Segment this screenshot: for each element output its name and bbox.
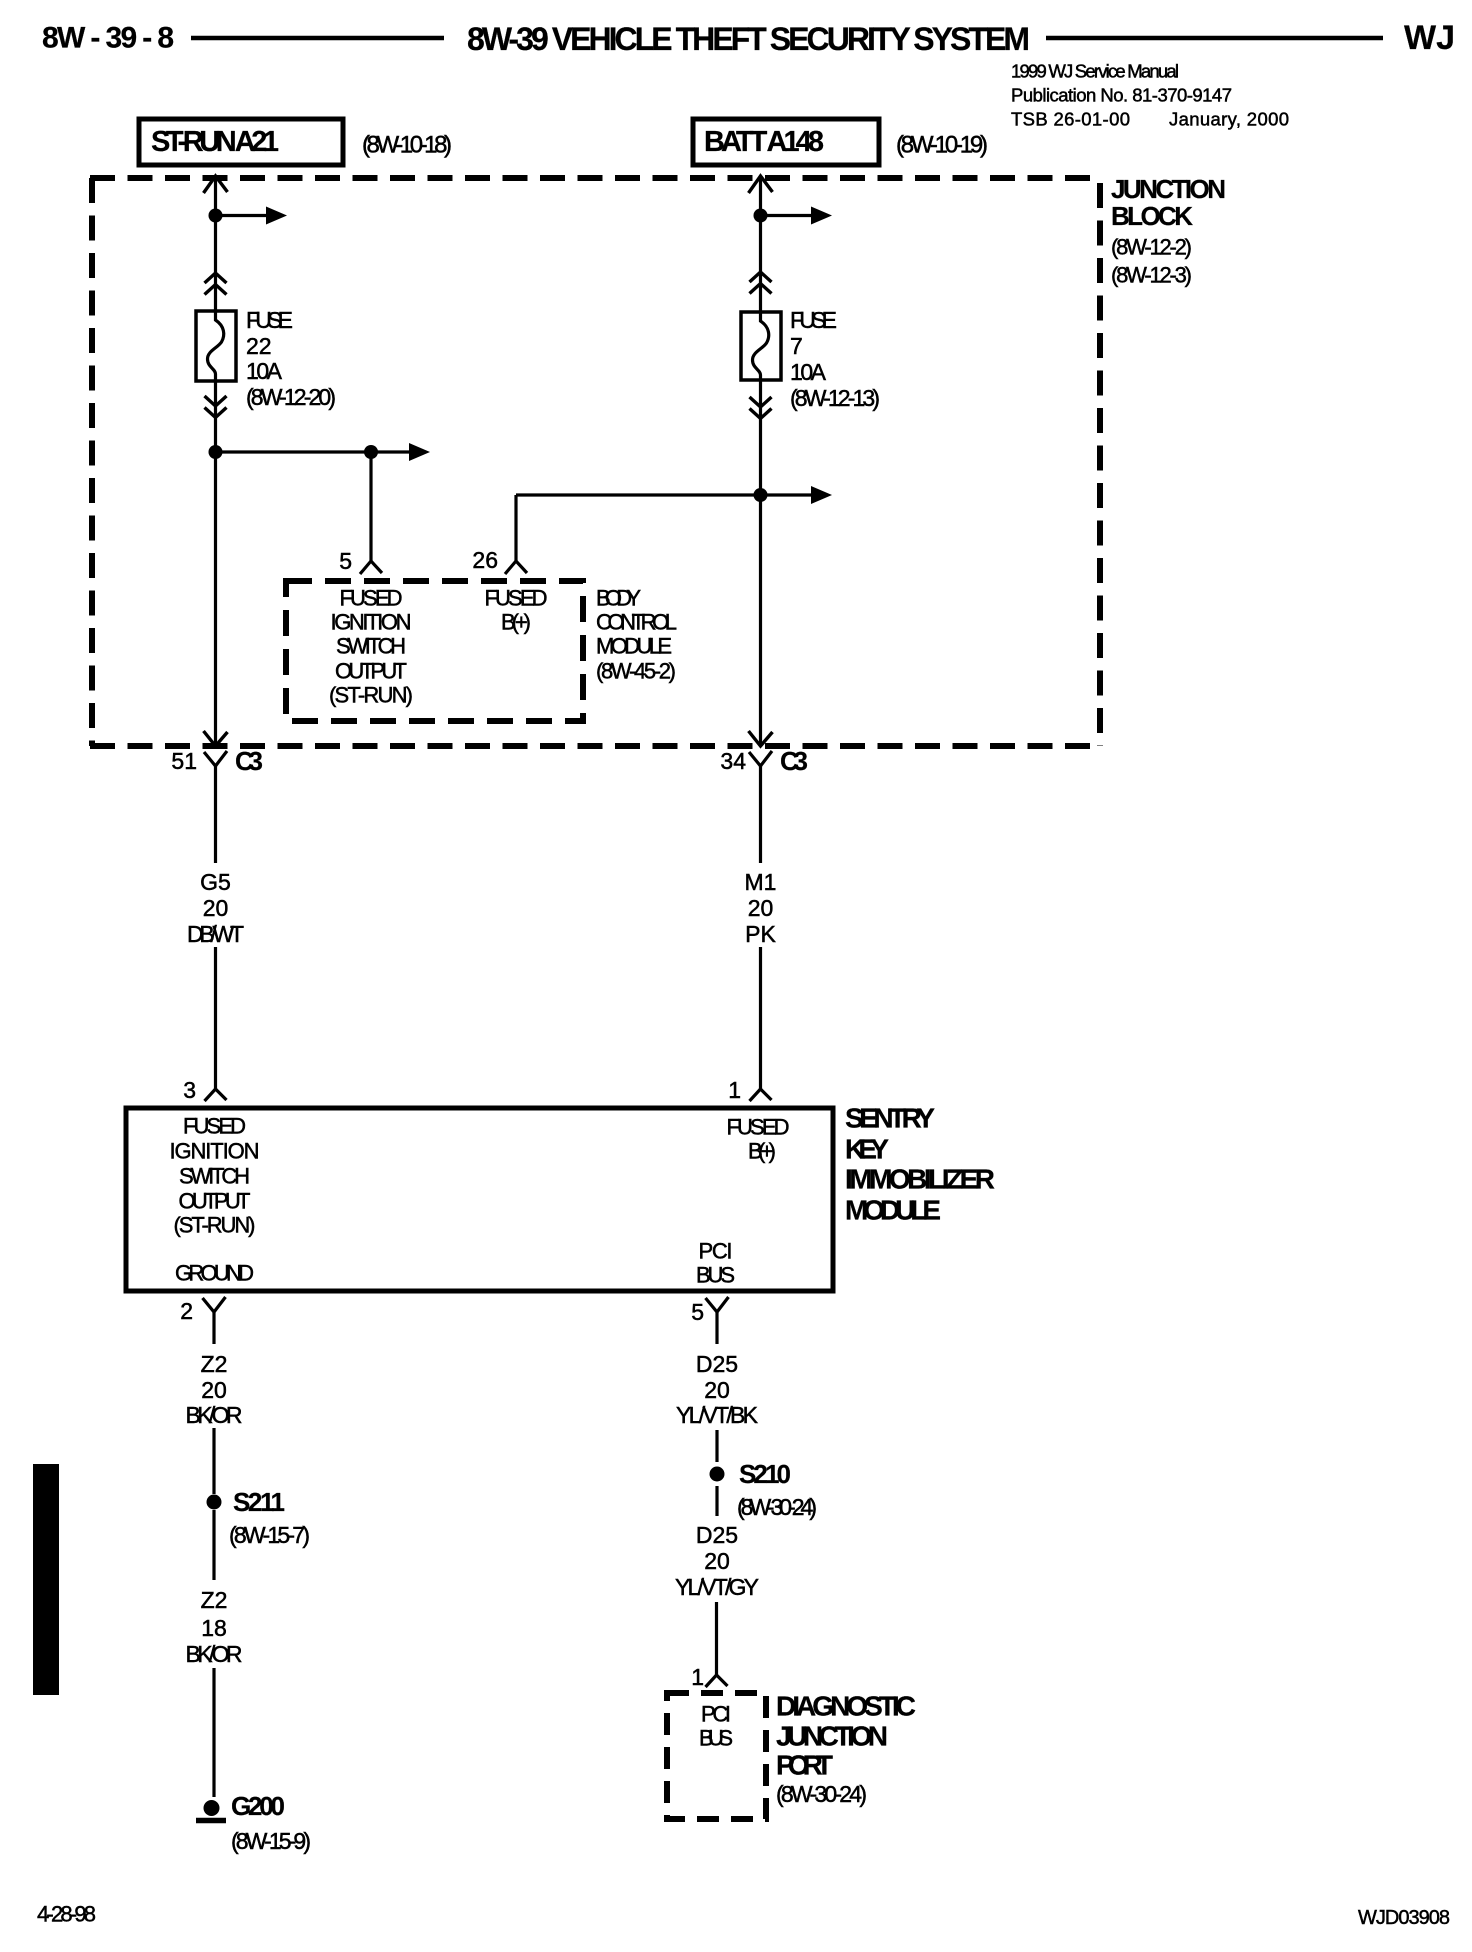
connector chevrons above fuse 7 — [750, 272, 772, 282]
junction node on batt feed upper — [754, 209, 768, 223]
svg-text:CONTROL: CONTROL — [596, 610, 677, 635]
page margin black bar — [33, 1464, 59, 1695]
svg-text:(ST-RUN): (ST-RUN) — [329, 683, 413, 708]
svg-text:M1: M1 — [745, 869, 777, 895]
junction node below fuse 22 — [209, 445, 223, 459]
svg-text:BK/OR: BK/OR — [186, 1641, 243, 1667]
svg-text:Publication No. 81-370-9147: Publication No. 81-370-9147 — [1011, 85, 1232, 106]
connector pin 5 socket below SKIM — [706, 1297, 729, 1312]
svg-text:PORT: PORT — [776, 1750, 833, 1781]
svg-text:OUTPUT: OUTPUT — [179, 1189, 251, 1214]
svg-text:C3: C3 — [780, 746, 808, 776]
svg-text:7: 7 — [790, 333, 803, 359]
svg-text:BODY: BODY — [596, 586, 641, 611]
wire BCM pin 26 to batt feed with arrow — [514, 495, 517, 561]
wire Z2 segment above S211 — [212, 1428, 215, 1494]
svg-text:5: 5 — [339, 548, 352, 574]
connector pin 1 into diagnostic junction port — [706, 1675, 728, 1687]
splice S210 — [710, 1467, 725, 1482]
svg-text:1: 1 — [728, 1077, 741, 1103]
svg-text:1999 WJ Service Manual: 1999 WJ Service Manual — [1011, 61, 1179, 82]
svg-text:(8W-45-2): (8W-45-2) — [596, 659, 676, 684]
connector C3 pin 34 socket — [749, 751, 772, 766]
wire D25 segment above S210 — [715, 1430, 718, 1462]
svg-text:TSB 26-01-00: TSB 26-01-00 — [1011, 109, 1130, 130]
connector C3 pin 34 arrow down — [749, 731, 773, 746]
svg-text:BUS: BUS — [699, 1726, 733, 1751]
junction block dashed outline — [90, 178, 1100, 746]
svg-text:D25: D25 — [696, 1351, 738, 1377]
svg-text:YL/VT/BK: YL/VT/BK — [676, 1402, 759, 1428]
svg-text:34: 34 — [720, 748, 746, 774]
svg-text:(8W-10-18): (8W-10-18) — [362, 132, 452, 159]
header rule left — [191, 36, 444, 41]
diagnostic junction port dashed box — [667, 1693, 766, 1819]
wire st-run feed vertical upper — [214, 177, 217, 311]
fuse 7 10A — [741, 312, 781, 380]
wire batt feed vertical upper — [759, 177, 762, 312]
connector pin 1 into SKIM — [750, 1089, 772, 1101]
svg-text:S211: S211 — [233, 1487, 285, 1517]
wire M1 upper segment — [759, 766, 762, 863]
svg-text:ST-RUN A21: ST-RUN A21 — [151, 126, 279, 158]
svg-text:(8W-15-9): (8W-15-9) — [231, 1828, 311, 1854]
svg-text:18: 18 — [201, 1615, 227, 1641]
svg-text:1: 1 — [691, 1664, 704, 1690]
svg-text:GROUND: GROUND — [175, 1261, 254, 1286]
svg-text:B(+): B(+) — [501, 610, 531, 635]
svg-text:SWITCH: SWITCH — [179, 1164, 250, 1189]
svg-text:FUSED: FUSED — [183, 1114, 246, 1139]
connector chevrons below fuse 7 — [750, 397, 772, 407]
header rule right — [1046, 36, 1383, 41]
connector pin 3 into SKIM — [205, 1089, 227, 1101]
svg-text:MODULE: MODULE — [845, 1195, 941, 1226]
svg-text:(8W-10-19): (8W-10-19) — [896, 132, 988, 159]
node ST-RUN A21 box — [139, 119, 343, 165]
wire Z2 segment below S211 — [212, 1510, 215, 1580]
svg-text:8W - 39 - 8: 8W - 39 - 8 — [42, 22, 174, 55]
wire Z2 to ground — [212, 1668, 215, 1797]
svg-text:DIAGNOSTIC: DIAGNOSTIC — [776, 1691, 916, 1722]
connector chevrons below fuse 22 — [205, 396, 227, 406]
svg-text:BATT A148: BATT A148 — [704, 126, 824, 158]
svg-text:5: 5 — [691, 1299, 704, 1325]
sentry key immobilizer module box — [126, 1108, 833, 1291]
svg-text:10A: 10A — [790, 359, 827, 385]
svg-text:(8W-12-2): (8W-12-2) — [1111, 235, 1192, 260]
svg-text:IGNITION: IGNITION — [170, 1139, 260, 1164]
svg-text:20: 20 — [201, 1377, 227, 1403]
svg-text:4-28-98: 4-28-98 — [37, 1902, 96, 1927]
svg-text:PCI: PCI — [699, 1239, 733, 1264]
svg-text:IMMOBILIZER: IMMOBILIZER — [845, 1164, 995, 1195]
svg-text:51: 51 — [171, 748, 197, 774]
svg-text:JUNCTION: JUNCTION — [776, 1721, 888, 1752]
svg-text:JUNCTION: JUNCTION — [1111, 174, 1226, 204]
svg-text:(ST-RUN): (ST-RUN) — [174, 1213, 256, 1238]
svg-text:G200: G200 — [231, 1791, 285, 1821]
svg-text:OUTPUT: OUTPUT — [335, 659, 407, 684]
svg-text:SENTRY: SENTRY — [845, 1103, 935, 1134]
svg-text:8W-39 VEHICLE THEFT SECURITY S: 8W-39 VEHICLE THEFT SECURITY SYSTEM — [467, 21, 1030, 57]
svg-text:(8W-12-3): (8W-12-3) — [1111, 263, 1192, 288]
wire branch arrow right upper left — [216, 214, 267, 217]
svg-text:FUSE: FUSE — [246, 307, 293, 333]
svg-text:FUSED: FUSED — [340, 586, 403, 611]
svg-text:FUSE: FUSE — [790, 307, 837, 333]
svg-text:FUSED: FUSED — [485, 586, 548, 611]
svg-text:26: 26 — [472, 547, 498, 573]
arrow up to BATT A148 — [749, 176, 773, 193]
wire D25 segment below S210 — [715, 1486, 718, 1516]
svg-text:2: 2 — [180, 1298, 193, 1324]
svg-text:BLOCK: BLOCK — [1111, 201, 1193, 231]
svg-text:YL/VT/GY: YL/VT/GY — [675, 1574, 759, 1600]
svg-text:G5: G5 — [200, 869, 231, 895]
wire M1 lower segment — [759, 947, 762, 1089]
connector pin 5 into BCM — [360, 561, 382, 574]
svg-text:WJ: WJ — [1404, 19, 1455, 57]
wire below fuse 7 — [759, 380, 762, 744]
svg-text:WJD03908: WJD03908 — [1358, 1907, 1450, 1929]
svg-text:B(+): B(+) — [748, 1139, 776, 1164]
wire below fuse 22 — [214, 381, 217, 744]
svg-text:BK/OR: BK/OR — [186, 1402, 243, 1428]
connector pin 2 socket below SKIM — [203, 1297, 226, 1312]
wire D25 to diagnostic junction port — [715, 1602, 718, 1675]
svg-text:PCI: PCI — [701, 1702, 731, 1727]
svg-text:SWITCH: SWITCH — [336, 634, 406, 659]
body control module dashed box — [286, 581, 583, 721]
svg-text:Z2: Z2 — [201, 1587, 228, 1613]
svg-text:(8W-30-24): (8W-30-24) — [737, 1494, 817, 1520]
svg-text:(8W-12-20): (8W-12-20) — [246, 384, 336, 410]
svg-text:22: 22 — [246, 333, 272, 359]
svg-text:20: 20 — [748, 895, 774, 921]
svg-text:IGNITION: IGNITION — [331, 610, 412, 635]
junction node on batt feed — [754, 488, 768, 502]
wire G5 upper segment — [214, 766, 217, 863]
svg-text:3: 3 — [183, 1077, 196, 1103]
svg-text:January, 2000: January, 2000 — [1169, 109, 1289, 130]
svg-text:Z2: Z2 — [201, 1351, 228, 1377]
arrow up to ST-RUN A21 — [204, 176, 228, 193]
svg-text:PK: PK — [745, 921, 776, 947]
svg-text:(8W-30-24): (8W-30-24) — [776, 1781, 867, 1807]
wire branch arrow right upper right — [761, 214, 813, 217]
svg-text:(8W-12-13): (8W-12-13) — [790, 385, 880, 411]
svg-text:KEY: KEY — [845, 1134, 889, 1165]
svg-text:FUSED: FUSED — [727, 1115, 790, 1140]
svg-text:20: 20 — [704, 1548, 730, 1574]
connector C3 pin 51 arrow down — [204, 731, 228, 746]
svg-text:MODULE: MODULE — [596, 634, 672, 659]
svg-text:(8W-15-7): (8W-15-7) — [229, 1522, 310, 1548]
connector pin 26 into BCM — [505, 561, 527, 574]
svg-text:10A: 10A — [246, 358, 283, 384]
svg-text:BUS: BUS — [696, 1263, 735, 1288]
splice S211 — [207, 1495, 222, 1510]
connector C3 pin 51 socket — [204, 751, 227, 766]
connector chevrons above fuse 22 — [205, 273, 227, 283]
svg-text:C3: C3 — [235, 746, 263, 776]
svg-text:20: 20 — [203, 895, 229, 921]
junction node on st-run feed — [209, 209, 223, 223]
wire G5 lower segment — [214, 947, 217, 1089]
ground G200 — [204, 1800, 220, 1816]
svg-text:S210: S210 — [739, 1459, 791, 1489]
node BATT A148 box — [693, 119, 879, 165]
svg-text:DB/WT: DB/WT — [187, 921, 244, 947]
fuse 22 10A — [196, 311, 236, 381]
svg-text:D25: D25 — [696, 1522, 738, 1548]
svg-text:20: 20 — [704, 1377, 730, 1403]
wire branch to BCM pin 5 and arrow — [216, 450, 372, 453]
